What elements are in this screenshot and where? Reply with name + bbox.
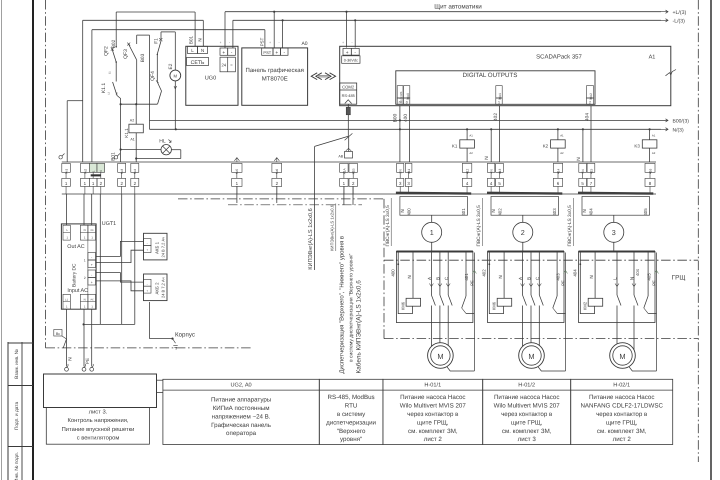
svg-text:-: - xyxy=(147,241,148,245)
svg-text:B01: B01 xyxy=(110,152,116,161)
svg-text:COM2: COM2 xyxy=(342,85,355,90)
aux contact branch 2 xyxy=(556,253,558,297)
svg-text:A0: A0 xyxy=(301,41,307,47)
svg-text:Корпус: Корпус xyxy=(175,332,195,339)
motor lead L branch 3 xyxy=(616,323,618,351)
svg-text:Щит автоматики: Щит автоматики xyxy=(434,3,482,10)
svg-text:-: - xyxy=(91,273,92,277)
svg-text:QF4: QF4 xyxy=(150,71,156,81)
wire UGT1 to AKB1 plus xyxy=(96,250,143,262)
UG0 terminal L xyxy=(188,46,198,53)
svg-text:Wilo Multivert MVIS 207: Wilo Multivert MVIS 207 xyxy=(494,403,561,410)
svg-text:+: + xyxy=(146,248,148,252)
svg-text:N: N xyxy=(491,209,496,212)
GRSh boundary dash-dot left vertical xyxy=(383,199,385,339)
svg-text:M: M xyxy=(437,352,443,361)
HMI terminal + xyxy=(273,48,281,55)
svg-text:402: 402 xyxy=(498,208,503,216)
svg-text:416: 416 xyxy=(648,169,652,175)
wire drop to HMI PST xyxy=(264,30,266,48)
contactor coil КМ6 branch 2 xyxy=(497,298,512,306)
description box Н-01/2 xyxy=(483,379,571,444)
PE wire branch 2 xyxy=(565,253,567,372)
svg-text:+: + xyxy=(91,281,93,285)
svg-text:402: 402 xyxy=(482,269,487,277)
UGT1 terminal N top xyxy=(80,225,88,240)
svg-text:-: - xyxy=(351,41,352,45)
terminal strip bottom rail xyxy=(62,193,656,195)
svg-text:PE: PE xyxy=(91,298,95,301)
cable single line above marker 2 xyxy=(522,215,524,222)
svg-text:Н-01/1: Н-01/1 xyxy=(424,382,441,389)
svg-text:N: N xyxy=(498,275,503,278)
phase wire А branch 1 xyxy=(430,253,432,296)
contactor pole contact N branch 3 xyxy=(634,295,638,306)
terminal Х1А xyxy=(340,163,348,172)
wire frame left paper edge xyxy=(1,0,3,480)
svg-text:24 В 7,2 Ач: 24 В 7,2 Ач xyxy=(161,277,166,298)
motor lead С branch 2 xyxy=(538,323,540,351)
chevron above terminal №5 xyxy=(234,158,239,161)
svg-text:N/(3): N/(3) xyxy=(673,127,684,133)
wire-end circle terminal 3 xyxy=(114,156,117,159)
terminal 5N xyxy=(579,163,587,172)
contactor pole contact С branch 1 xyxy=(448,295,452,306)
description box Н-02/1 xyxy=(571,379,673,444)
phase wire В branch 2 xyxy=(530,253,532,296)
svg-text:с вентилятором: с вентилятором xyxy=(77,435,120,441)
svg-text:Взам. инв. №: Взам. инв. № xyxy=(14,349,20,379)
svg-text:лист 2: лист 2 xyxy=(424,436,443,443)
aux contact branch 1 xyxy=(465,253,467,297)
svg-text:см. комплект ЗМ,: см. комплект ЗМ, xyxy=(408,428,458,435)
svg-text:через контактор в: через контактор в xyxy=(407,411,459,418)
title block strip left line xyxy=(7,342,9,480)
svg-text:E2: E2 xyxy=(168,63,174,69)
junction dot lamp loop on chain1 xyxy=(120,148,122,150)
svg-text:КИПЭВнг(А)-LS 1х2х0,6: КИПЭВнг(А)-LS 1х2х0,6 xyxy=(307,208,314,270)
svg-text:лист 3.: лист 3. xyxy=(89,409,108,416)
wire jog to x=120.6 xyxy=(117,96,121,99)
svg-text:АКБ 2: АКБ 2 xyxy=(155,282,160,295)
wire screen vertical to chassis xyxy=(149,35,151,129)
svg-text:0: 0 xyxy=(406,101,408,105)
svg-text:Инв. № подл.: Инв. № подл. xyxy=(14,452,20,480)
UG0 СЕТЬ label box xyxy=(187,58,209,66)
GRSh boundary dash-dot top horizontal xyxy=(384,259,698,261)
cable head band branch 2 xyxy=(487,192,562,195)
junction dot E2 N return xyxy=(175,128,177,130)
UGT1 terminal L1 bottom xyxy=(63,294,70,309)
svg-text:3do1: 3do1 xyxy=(498,93,502,100)
svg-text:-: - xyxy=(229,41,230,45)
svg-text:415: 415 xyxy=(589,169,593,175)
svg-text:АВ: АВ xyxy=(338,155,343,159)
wire terminal L green drop xyxy=(91,30,93,162)
wire rail to HMI PST xyxy=(92,29,265,31)
svg-text:через контактор в: через контактор в xyxy=(501,411,553,418)
svg-text:оператора: оператора xyxy=(226,430,257,437)
svg-text:A1: A1 xyxy=(652,134,656,138)
contactor box branch 2 xyxy=(488,252,565,323)
svg-text:m: m xyxy=(399,101,402,105)
svg-text:DIGITAL OUTPUTS: DIGITAL OUTPUTS xyxy=(463,72,518,79)
svg-text:A1: A1 xyxy=(649,55,656,61)
svg-text:N: N xyxy=(630,277,635,280)
cable single line above marker 3 xyxy=(613,215,615,222)
svg-text:405: 405 xyxy=(646,273,651,281)
contactor pole contact С branch 2 xyxy=(539,295,543,306)
chassis ground symbol xyxy=(173,339,178,349)
wire lamp right segment xyxy=(171,149,180,151)
svg-text:L: L xyxy=(613,277,618,280)
relay coil K3 xyxy=(649,129,651,162)
wire horizontal link y=324.4 xyxy=(84,323,135,325)
svg-text:1: 1 xyxy=(84,259,86,263)
svg-text:ПВСнг(А)-LS 3х0,5: ПВСнг(А)-LS 3х0,5 xyxy=(567,205,573,247)
svg-text:АКБ 1: АКБ 1 xyxy=(155,241,160,254)
svg-text:A2: A2 xyxy=(652,151,656,155)
jumper link between green terminals xyxy=(91,174,101,176)
svg-text:L: L xyxy=(191,48,194,53)
svg-text:PE: PE xyxy=(85,358,90,364)
UG0 - output cell xyxy=(228,48,236,55)
phase wire С branch 1 xyxy=(447,253,449,296)
junction box (empty) xyxy=(44,374,157,408)
wire lamp left segment xyxy=(121,149,161,151)
wire B03 vertical下 xyxy=(136,60,138,104)
coil feed wire branch 2 xyxy=(489,253,503,314)
svg-text:Панель графическая: Панель графическая xyxy=(246,67,304,74)
coil feed wire branch 1 xyxy=(398,253,412,314)
svg-text:UG2, A0: UG2, A0 xyxy=(231,383,252,389)
wire UGT1 N down xyxy=(83,309,85,366)
wire horizontal y=104.2 xyxy=(121,103,158,105)
UG0 24V label box xyxy=(220,57,235,72)
wire lamp loop bottom xyxy=(136,158,181,160)
cabinet boundary dash-dot vertical (Щит автоматики) xyxy=(45,0,47,348)
svg-text:414: 414 xyxy=(556,169,560,175)
svg-text:24 В 7,2 Ач: 24 В 7,2 Ач xyxy=(161,237,166,258)
UGT1 interior divider xyxy=(87,240,89,294)
svg-text:401: 401 xyxy=(461,208,466,216)
switch Вк on L1 wire xyxy=(54,330,62,337)
svg-text:лист 3: лист 3 xyxy=(518,436,537,443)
wire screen down to dispatch xyxy=(314,146,316,270)
wire UGT1 PE down xyxy=(91,309,93,366)
wire terminal 2 feed from N rail xyxy=(82,20,84,162)
UPS UGT1 box xyxy=(61,224,96,309)
wire UGT1 to AKB1 minus xyxy=(96,241,143,256)
svg-text:Вк: Вк xyxy=(56,332,60,336)
arrow B00/(3) xyxy=(661,119,668,122)
wire N to terminal branch2 xyxy=(490,129,492,162)
svg-text:NANFANG CDLF2-17LDWSC: NANFANG CDLF2-17LDWSC xyxy=(580,403,663,410)
svg-text:A2: A2 xyxy=(130,119,134,123)
svg-text:N: N xyxy=(407,275,412,278)
wire strip to UGT1 N xyxy=(83,194,85,225)
chassis wire to Корпус xyxy=(150,338,173,340)
wire QF2 to K1.1 contact xyxy=(115,62,117,82)
svg-text:403: 403 xyxy=(552,208,557,216)
svg-text:B01: B01 xyxy=(189,35,194,44)
svg-text:B00: B00 xyxy=(393,113,399,122)
svg-text:+: + xyxy=(275,51,278,56)
cable single line below marker 1 xyxy=(431,242,433,251)
wire drop to UG0 N xyxy=(202,20,204,46)
svg-text:N: N xyxy=(484,156,490,160)
svg-text:403: 403 xyxy=(555,273,560,281)
description box Н-01/1 xyxy=(383,379,483,444)
svg-text:ПВСнг(А)-LS 3х0,5: ПВСнг(А)-LS 3х0,5 xyxy=(476,205,482,247)
svg-text:№4: №4 xyxy=(133,169,137,174)
svg-text:412: 412 xyxy=(465,169,469,175)
svg-text:SCADAPack 357: SCADAPack 357 xyxy=(536,54,582,61)
svg-text:K1: K1 xyxy=(452,143,458,148)
motor lead В branch 2 xyxy=(530,323,532,351)
svg-text:КИПиА постоянным: КИПиА постоянным xyxy=(213,405,270,412)
UGT1 terminal PE top xyxy=(88,225,96,240)
PLC power terminal + xyxy=(343,48,351,55)
phase wire L branch 3 xyxy=(616,253,618,296)
cabinet boundary dash-dot bottom horizontal xyxy=(46,347,253,349)
svg-text:Питание аппаратуры: Питание аппаратуры xyxy=(211,397,272,404)
terminal 413 xyxy=(496,163,504,172)
junction dot chain1/branch xyxy=(120,103,122,105)
svg-text:N: N xyxy=(589,275,594,278)
title block dividers xyxy=(8,342,33,344)
communication double arrow HMI-PLC xyxy=(311,73,335,80)
wire QF4 down to node xyxy=(158,91,162,104)
wire RS pair down to X1 connector xyxy=(348,137,350,152)
svg-text:401: 401 xyxy=(464,273,469,281)
svg-text:404: 404 xyxy=(635,268,640,276)
svg-text:413: 413 xyxy=(498,169,502,175)
svg-text:N: N xyxy=(201,48,204,53)
wire B01 top rail to UG0 L xyxy=(116,11,195,13)
svg-text:Питание впускной решетки: Питание впускной решетки xyxy=(62,426,135,433)
svg-text:№2: №2 xyxy=(83,169,87,174)
svg-text:ГРЩ: ГРЩ xyxy=(672,275,686,282)
wire F1 to QF4 xyxy=(156,54,158,82)
wire PLC output 402 xyxy=(499,106,501,162)
svg-text:4N: 4N xyxy=(490,169,494,174)
terminal 416 xyxy=(645,163,655,172)
svg-text:Input AC: Input AC xyxy=(67,288,88,294)
motor lead А branch 2 xyxy=(522,323,524,351)
svg-text:0-36Vdc: 0-36Vdc xyxy=(344,59,358,63)
svg-text:Кабель КИПЭВнг(А)-LS 1х2х0,6: Кабель КИПЭВнг(А)-LS 1х2х0,6 xyxy=(356,280,363,374)
svg-text:404: 404 xyxy=(573,269,578,277)
power supply UG0 box xyxy=(186,46,238,105)
svg-text:Питание насоса Насос: Питание насоса Насос xyxy=(494,394,559,401)
svg-text:N: N xyxy=(84,228,86,232)
svg-text:402: 402 xyxy=(493,113,499,121)
svg-text:N: N xyxy=(84,297,86,301)
svg-text:PE: PE xyxy=(561,280,566,286)
svg-text:RS-485: RS-485 xyxy=(342,93,355,98)
wire strip to UGT1 L xyxy=(66,194,68,225)
svg-text:405: 405 xyxy=(643,208,648,216)
svg-text:напряжением ~24 В.: напряжением ~24 В. xyxy=(212,413,271,420)
wire PLC output 400 xyxy=(409,106,411,162)
GRSh boundary dash-dot bottom horizontal xyxy=(384,338,698,340)
wire UGT1 to AKB2 minus xyxy=(96,273,143,283)
bus N horizontal xyxy=(150,128,662,130)
svg-text:+: + xyxy=(91,263,93,267)
svg-text:Питание насоса Насос: Питание насоса Насос xyxy=(589,394,654,401)
junction dot N wire PLC xyxy=(399,128,401,130)
motor return wire branch 2 xyxy=(538,367,566,371)
motor M branch 3 xyxy=(610,343,636,369)
svg-text:PE: PE xyxy=(91,229,95,232)
wire B03 loop left vertical xyxy=(136,35,138,44)
svg-text:-: - xyxy=(278,41,279,45)
svg-text:3: 3 xyxy=(612,228,616,237)
svg-text:см. комплект ЗМ,: см. комплект ЗМ, xyxy=(502,428,552,435)
terminal №3 xyxy=(118,163,126,172)
svg-text:1: 1 xyxy=(430,228,434,237)
motor M branch 2 xyxy=(519,343,545,369)
svg-text:уровня": уровня" xyxy=(340,436,362,443)
wires X1 pair down out of cabinet xyxy=(343,186,345,205)
svg-text:+: + xyxy=(222,51,225,56)
svg-text:F1: F1 xyxy=(153,38,159,44)
wire N to terminal branch3 xyxy=(582,129,584,162)
DO terminal 3do2 xyxy=(587,86,594,98)
svg-text:СЕТЬ: СЕТЬ xyxy=(191,60,205,66)
svg-text:QF2: QF2 xyxy=(104,46,110,56)
svg-text:PE: PE xyxy=(652,280,657,286)
motor return wire branch 3 xyxy=(629,367,657,371)
contactor box branch 3 xyxy=(579,252,656,323)
coil feed wire branch 3 xyxy=(580,253,594,314)
cable body box branch 3 xyxy=(582,197,650,216)
terminal 3N xyxy=(397,163,404,172)
svg-text:щите ГРЩ,: щите ГРЩ, xyxy=(417,419,449,426)
svg-text:Н-02/1: Н-02/1 xyxy=(613,382,630,389)
HMI terminal - xyxy=(281,48,289,55)
DO terminal 0-3com xyxy=(397,86,403,98)
svg-text:Wilo Multivert MVIS 207: Wilo Multivert MVIS 207 xyxy=(400,403,467,410)
bus B00 horizontal xyxy=(150,119,662,121)
svg-text:Н-01/2: Н-01/2 xyxy=(518,382,535,389)
svg-text:Х1Б: Х1Б xyxy=(352,168,356,174)
contactor pole contact В branch 2 xyxy=(531,295,535,306)
svg-text:2: 2 xyxy=(589,101,591,105)
coil N wire branch 2 xyxy=(503,253,505,299)
PLC power terminal - xyxy=(351,48,359,55)
svg-text:КМ2: КМ2 xyxy=(583,301,588,310)
connector plug АВ xyxy=(345,152,353,159)
svg-text:404: 404 xyxy=(589,208,594,216)
svg-text:3do0: 3do0 xyxy=(406,93,410,100)
wire drop to UG0 L xyxy=(194,12,196,46)
svg-text:Подп. и дата: Подп. и дата xyxy=(14,402,20,431)
svg-text:2: 2 xyxy=(521,228,525,237)
svg-text:№1: №1 xyxy=(64,169,68,174)
wire PLC B00 drop xyxy=(399,106,401,162)
svg-text:1: 1 xyxy=(498,101,500,105)
cable body box branch 2 xyxy=(491,197,559,216)
terminal 4N xyxy=(487,163,494,172)
HMI terminal PST xyxy=(262,48,273,55)
svg-text:404: 404 xyxy=(584,113,590,121)
svg-text:-: - xyxy=(91,256,92,260)
terminal №1 xyxy=(62,163,71,172)
svg-text:B00/(3): B00/(3) xyxy=(673,119,690,125)
svg-text:RTU: RTU xyxy=(345,403,358,410)
svg-text:КИПЭВнг(А)-LS 1х2х0,6: КИПЭВнг(А)-LS 1х2х0,6 xyxy=(330,204,335,251)
svg-text:PST: PST xyxy=(260,37,265,46)
battery AKB2 box xyxy=(144,274,168,301)
svg-text:A1: A1 xyxy=(560,134,564,138)
svg-text:B03: B03 xyxy=(140,53,146,62)
terminal L xyxy=(89,163,97,172)
svg-text:PE: PE xyxy=(470,280,475,286)
terminal №5 xyxy=(232,163,242,172)
cable single line below marker 3 xyxy=(613,242,615,251)
relay coil K1 xyxy=(466,129,468,162)
DO terminal 3do0 xyxy=(404,86,410,98)
frame thick right border xyxy=(710,0,712,480)
aux contact branch 3 xyxy=(647,253,649,297)
lamp HL xyxy=(161,145,171,155)
relay coil K2 xyxy=(557,129,559,162)
wires below dispatch terminals xyxy=(236,186,238,203)
svg-text:N: N xyxy=(68,357,74,361)
wire E2 feed xyxy=(174,32,176,70)
wire terminal №3 down xyxy=(121,194,123,324)
description box sheet3 xyxy=(46,408,149,445)
wire-end circles to box xyxy=(65,367,69,371)
battery AKB1 box xyxy=(144,233,168,260)
svg-text:"Верхнего: "Верхнего xyxy=(337,428,366,435)
phase wire N branch 3 xyxy=(633,253,635,296)
junction dot Корпус xyxy=(171,338,173,340)
terminal N xyxy=(97,163,105,172)
svg-text:Out AC: Out AC xyxy=(67,244,84,250)
chevron above terminal №6 xyxy=(274,158,279,161)
svg-text:ПВСнг(А)-LS 3х0,5: ПВСнг(А)-LS 3х0,5 xyxy=(385,205,391,247)
svg-text:лист 2: лист 2 xyxy=(613,436,632,443)
svg-text:A2: A2 xyxy=(560,151,564,155)
svg-text:+: + xyxy=(346,51,349,56)
svg-text:UGT1: UGT1 xyxy=(102,221,116,227)
svg-text:MT8070E: MT8070E xyxy=(262,76,288,83)
svg-text:№5: №5 xyxy=(235,169,239,174)
motor lead В branch 1 xyxy=(439,323,441,351)
phase wire А branch 2 xyxy=(522,253,524,296)
cable body box branch 1 xyxy=(400,197,468,216)
contactor pole contact L branch 3 xyxy=(617,295,621,306)
UGT1 terminal L top xyxy=(63,225,70,240)
wire UG0 - up to 0V rail xyxy=(232,20,234,48)
cable head band branch 3 xyxy=(578,192,653,195)
svg-text:КМ6: КМ6 xyxy=(492,301,497,310)
svg-text:в систему: в систему xyxy=(337,411,366,418)
svg-text:A1: A1 xyxy=(130,137,134,141)
connector block on RS-485 wire xyxy=(346,107,350,115)
wire terminal №4 down xyxy=(134,194,136,324)
PLC 0-36Vdc label box xyxy=(342,56,360,64)
svg-text:QF3: QF3 xyxy=(123,49,129,59)
svg-text:K3: K3 xyxy=(634,143,640,148)
svg-text:3do2: 3do2 xyxy=(589,93,593,100)
junction dot PLC - on rail xyxy=(354,19,356,21)
contactor pole contact А branch 2 xyxy=(523,295,527,306)
svg-text:K1.1: K1.1 xyxy=(101,83,107,94)
